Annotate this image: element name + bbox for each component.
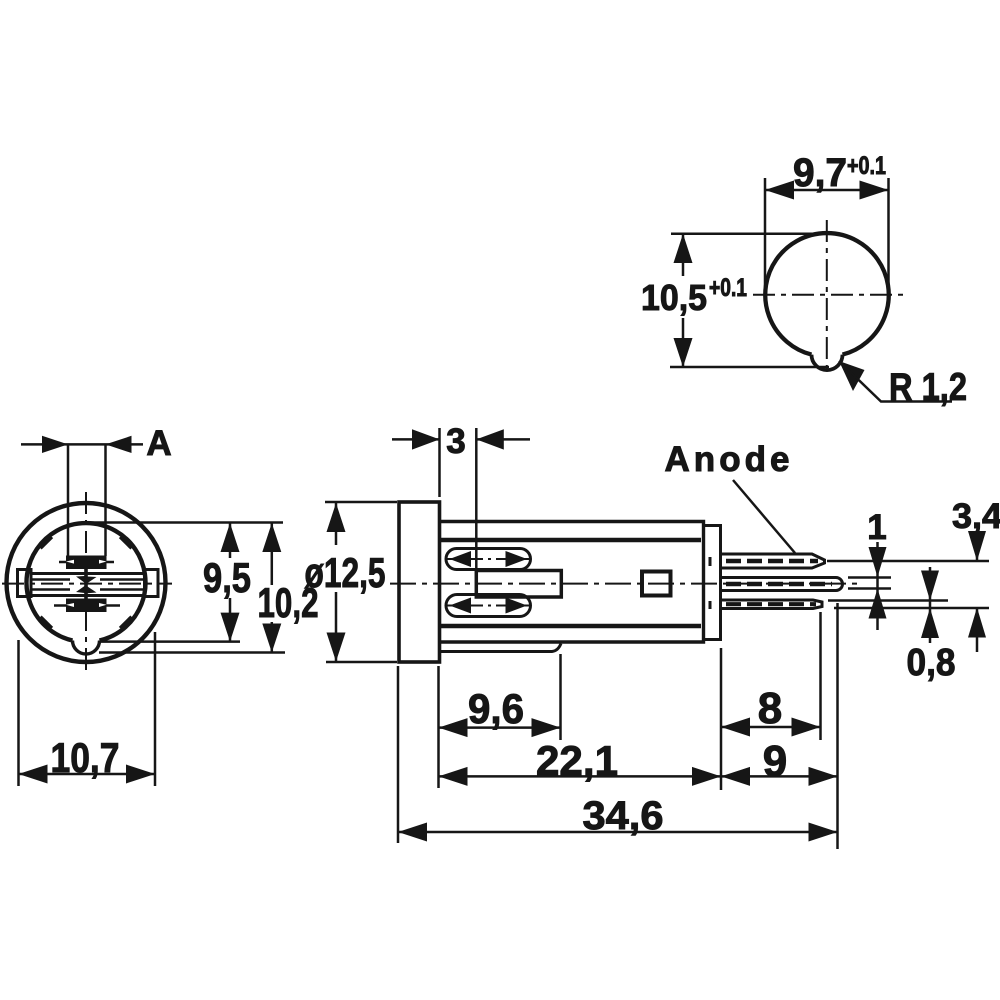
dim 9 right arrow [809, 767, 838, 786]
anode pin hatch line [726, 559, 818, 564]
left tab [18, 570, 32, 597]
dim 1 down arrow [869, 547, 887, 577]
bottom pin [721, 600, 823, 609]
right tab [145, 570, 159, 597]
bottom clip right arrowhead [506, 598, 528, 614]
dim 10,7 right extension line [154, 632, 157, 786]
extension line short pins end [819, 612, 822, 740]
dim 9,7 left arrow [765, 181, 794, 200]
dim 1 extension line top [848, 576, 891, 579]
dim o12,5 bottom extension line [326, 661, 397, 664]
dim 9,5 top extension line [88, 521, 283, 524]
dim 10,5 bottom extension line [670, 366, 829, 369]
extension line flange front [397, 666, 400, 843]
contact band top line [31, 572, 145, 575]
dim 9,7 right arrow [860, 181, 889, 200]
svg-text:1: 1 [867, 508, 886, 547]
svg-text:3,4: 3,4 [952, 497, 1000, 536]
dim 3,4 vertical line top [976, 532, 979, 561]
dim 22,1 line [439, 775, 722, 778]
band inner line lower-right [100, 588, 145, 591]
body outline [440, 522, 704, 643]
top contact bar whiskers [59, 561, 114, 564]
dim 34,6 left arrow [398, 823, 427, 842]
dim 9,6 left arrow [439, 718, 468, 737]
middle pin hatch line [726, 582, 832, 587]
bottom clip center dash line [446, 605, 530, 607]
dim 9 left arrow [721, 767, 750, 786]
front horizontal center line [2, 583, 172, 585]
dim 8 left arrow [721, 718, 750, 737]
svg-text:+0.1: +0.1 [847, 152, 886, 180]
top clip center dash line [446, 558, 530, 560]
svg-text:10,5: 10,5 [641, 277, 707, 318]
dim A line [21, 443, 143, 446]
bottom bar white notches [66, 603, 107, 607]
center chip stem [84, 569, 88, 599]
inner circle 45deg tick lower-left [41, 617, 53, 628]
body inner bottom wall [440, 624, 702, 629]
svg-text:10,7: 10,7 [51, 734, 120, 781]
keyway square [642, 572, 671, 596]
band inner line lower-left [31, 588, 70, 591]
dim 3 right arrow [476, 429, 504, 449]
svg-text:22,1: 22,1 [536, 737, 618, 784]
plunger rectangle [476, 571, 561, 598]
cutout vertical center line [826, 220, 828, 373]
dim 34,6 line [398, 831, 838, 834]
dim 10,7 line [19, 773, 156, 776]
extension line rib end [559, 654, 562, 740]
bottom spring clip stadium [446, 595, 531, 617]
R 1,2 leader arrow [839, 361, 865, 391]
dim A right extension line [104, 444, 107, 556]
front outer circle (bezel) [7, 503, 166, 662]
bottom contact bar [66, 599, 107, 613]
dim 22,1 right arrow [692, 767, 721, 786]
center chip butterfly [76, 576, 97, 593]
dim 8 line [721, 726, 821, 729]
dim o12,5 top extension line [325, 501, 397, 504]
dim 10,5 vertical line upper [682, 234, 685, 276]
R 1,2 leader line [839, 361, 952, 402]
cutout horizontal center line [753, 294, 903, 296]
dim 9,6 line [439, 726, 561, 729]
svg-text:0,8: 0,8 [907, 642, 956, 684]
dim 22,1 left arrow [439, 767, 468, 786]
bottom pin bottom extension line [834, 607, 989, 610]
dim 9,7 left extension line [764, 178, 767, 299]
dim o12,5 up arrow [327, 503, 346, 532]
top clip right arrowhead [506, 551, 528, 567]
dim 8 right arrow [792, 718, 821, 737]
bottom pin hatch line [726, 602, 816, 606]
dim 3,4 vertical line bottom [976, 608, 979, 653]
dim o12,5 vertical line [335, 503, 338, 661]
dim A left arrow [42, 436, 68, 453]
dim 10,2 up arrow [262, 523, 281, 552]
top clip left arrowhead [450, 551, 472, 567]
dim 10,5 up arrow [674, 234, 693, 263]
dim 1 vertical line [876, 542, 879, 630]
dim 10,7 left extension line [17, 640, 20, 786]
top spring clip stadium [446, 549, 531, 570]
svg-text:A: A [146, 424, 171, 463]
svg-text:9: 9 [763, 737, 787, 786]
panel cutout circle [765, 233, 889, 355]
svg-text:9,7: 9,7 [793, 151, 847, 195]
svg-text:ø12,5: ø12,5 [305, 549, 386, 596]
bottom contact bar whiskers [54, 604, 120, 607]
bottom clip left arrowhead [450, 598, 472, 614]
dim 9,6 right arrow [532, 718, 561, 737]
front inner circle [27, 523, 146, 640]
dim 9,5 down arrow [221, 613, 240, 642]
front vertical center line [85, 492, 87, 672]
dim 9,5 vertical line [229, 523, 232, 642]
top bar white notches [66, 560, 107, 564]
dim 3 right arrow line [476, 438, 530, 441]
dim o12,5 down arrow [327, 633, 346, 662]
dim 1 up arrow [869, 589, 887, 619]
dim 9,5 up arrow [221, 523, 240, 552]
dim 3 right extension line [475, 428, 478, 570]
dim 10,5 down arrow [674, 338, 693, 367]
panel cutout keyway notch R1,2 [812, 355, 843, 370]
svg-text:+0.1: +0.1 [709, 274, 747, 302]
dim 0,8 down arrow [921, 571, 939, 601]
middle pin [721, 578, 843, 591]
dim 3,4 down arrow [968, 531, 986, 561]
top contact bar [66, 556, 107, 570]
front keyway notch bump [73, 641, 100, 655]
dim 3,4 up arrow [968, 608, 986, 638]
svg-text:3: 3 [446, 422, 465, 461]
dim 10,2 vertical line [271, 523, 274, 652]
inner circle 45deg tick upper-left [41, 537, 53, 548]
dim 34,6 right arrow [809, 823, 838, 842]
dim 9,7 right extension line [887, 178, 890, 302]
dim 0,8 vertical line [929, 567, 932, 643]
pin tip extension line (3,4 top) [827, 560, 989, 563]
Anode leader line [733, 480, 795, 553]
flange [399, 502, 440, 662]
dim 3 left arrow [412, 429, 440, 449]
contact band bottom line [31, 594, 145, 597]
svg-text:Anode: Anode [665, 440, 790, 479]
dim 3 left extension line [438, 428, 441, 497]
dim 10,7 right arrow [126, 765, 155, 784]
band inner line upper-left [31, 578, 70, 581]
anode pin (top) [721, 554, 825, 568]
side view center line [390, 583, 858, 585]
dim 10,5 vertical line lower [682, 318, 685, 367]
dim 9 line [721, 775, 838, 778]
extension line long pin end [836, 603, 839, 849]
dim 10,2 down arrow [262, 624, 281, 653]
inner circle 45deg tick upper-right [120, 537, 132, 548]
dim 10,7 left arrow [19, 765, 48, 784]
pin roots in rear cap [709, 557, 712, 609]
dim 0,8 up arrow [921, 608, 939, 638]
bottom pin top extension line [828, 599, 948, 602]
bottom key rib [440, 644, 562, 652]
extension line body rear [720, 648, 723, 790]
svg-text:34,6: 34,6 [583, 794, 664, 838]
extension line flange back [437, 666, 440, 788]
svg-text:R 1,2: R 1,2 [889, 366, 967, 409]
svg-text:8: 8 [758, 684, 782, 733]
dim 1 extension line bottom [848, 587, 891, 590]
svg-text:9,5: 9,5 [203, 554, 251, 601]
dim 3 left arrow line [392, 438, 440, 441]
dim A right arrow [106, 436, 132, 453]
dim 9,7 line [765, 189, 889, 192]
dim 10,2 bottom extension line [99, 651, 285, 654]
rear cap [704, 526, 721, 640]
inner circle 45deg tick lower-right [120, 617, 132, 628]
band inner line upper-right [100, 578, 145, 581]
dim A left extension line [67, 444, 70, 556]
svg-text:9,6: 9,6 [468, 685, 524, 732]
body inner top wall [440, 538, 702, 543]
dim 9,5 bottom extension line [100, 640, 240, 643]
dim 10,5 top extension line [671, 232, 817, 235]
